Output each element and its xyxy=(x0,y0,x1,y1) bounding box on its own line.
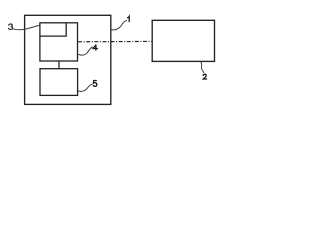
label 1 xyxy=(128,16,130,21)
leader for label 1 xyxy=(111,20,127,30)
box 5 lower inner block xyxy=(40,69,78,96)
leader for label 3 xyxy=(13,25,40,30)
leader for label 5 xyxy=(78,84,92,91)
label 4 xyxy=(93,45,97,50)
leader for label 2 xyxy=(201,62,204,73)
box 2 right block xyxy=(152,20,214,61)
wire connector between block 3 and block 5 xyxy=(58,61,60,69)
box 3 upper inner block xyxy=(40,23,78,61)
label 3 xyxy=(8,24,12,29)
box 1 outer enclosure xyxy=(25,15,111,104)
dash-dot link 4 xyxy=(78,40,152,42)
leader for label 4 xyxy=(78,47,93,55)
label 2 xyxy=(203,74,206,79)
sub-box inside block 3 xyxy=(40,23,66,36)
label 5 xyxy=(93,81,97,87)
